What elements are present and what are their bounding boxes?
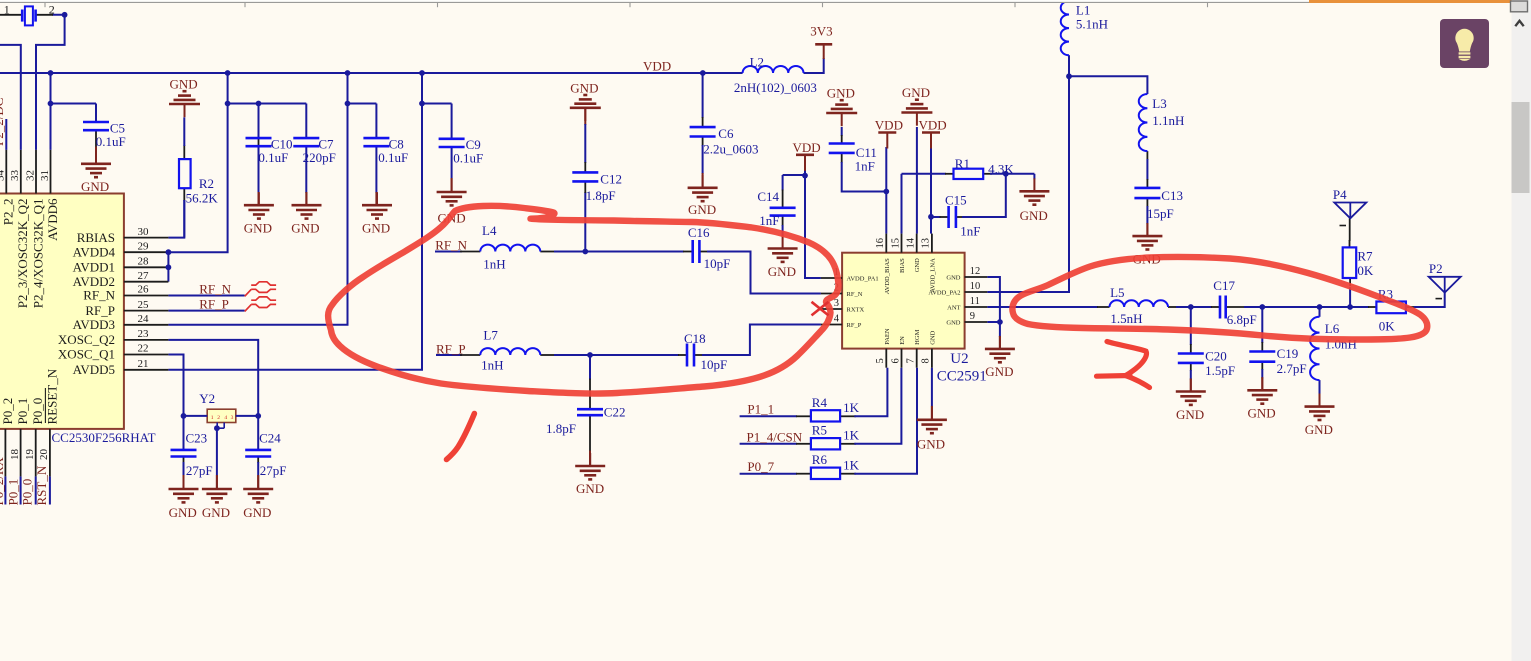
svg-text:AVDD4: AVDD4 [73,244,116,259]
svg-text:C20: C20 [1205,349,1227,364]
svg-text:R1: R1 [955,156,970,171]
svg-text:C19: C19 [1277,346,1299,361]
svg-text:29: 29 [138,240,150,252]
svg-text:1nF: 1nF [759,213,779,228]
svg-text:C18: C18 [684,331,706,346]
svg-text:RF_N: RF_N [199,282,231,297]
svg-text:AVDD_BIAS: AVDD_BIAS [884,258,891,294]
svg-text:1: 1 [4,3,10,17]
svg-text:15pF: 15pF [1147,206,1174,221]
svg-text:16: 16 [875,238,886,249]
svg-text:RF_P: RF_P [847,322,862,329]
svg-text:1.5pF: 1.5pF [1205,363,1235,378]
svg-text:P1_4/CSN: P1_4/CSN [747,429,803,444]
svg-text:0.1uF: 0.1uF [258,150,288,165]
svg-text:1nH: 1nH [483,257,505,272]
svg-text:GND: GND [362,220,390,235]
svg-text:31: 31 [39,170,51,181]
svg-text:L4: L4 [482,223,497,238]
svg-text:2.2u_0603: 2.2u_0603 [703,142,758,157]
svg-text:4: 4 [224,415,227,421]
svg-text:8: 8 [921,358,932,363]
svg-text:10pF: 10pF [704,256,731,271]
svg-text:0K: 0K [1379,319,1396,334]
svg-text:C12: C12 [600,172,622,187]
svg-text:U2: U2 [950,351,968,367]
svg-text:GND: GND [243,505,271,520]
svg-text:AVDD2: AVDD2 [73,274,115,289]
svg-text:L6: L6 [1325,321,1340,336]
svg-text:P2_3/XOSC32K_Q2: P2_3/XOSC32K_Q2 [15,199,30,309]
svg-text:56.2K: 56.2K [186,190,219,205]
svg-text:4: 4 [834,314,840,325]
svg-text:C24: C24 [259,430,281,445]
svg-text:Y2: Y2 [199,391,215,406]
svg-text:P0_1: P0_1 [6,479,21,506]
svg-text:GND: GND [291,220,319,235]
svg-text:C23: C23 [186,430,208,445]
svg-text:P2_2: P2_2 [1,199,16,226]
svg-text:VDD: VDD [643,58,671,73]
svg-text:26: 26 [138,284,150,296]
svg-text:C15: C15 [945,193,967,208]
svg-text:AVDD_PA1: AVDD_PA1 [847,275,879,282]
svg-text:RBIAS: RBIAS [77,230,115,245]
svg-text:VDD: VDD [919,118,947,133]
svg-text:L7: L7 [483,328,498,343]
svg-text:RF_N: RF_N [435,238,467,253]
svg-text:1.8pF: 1.8pF [546,421,576,436]
svg-text:C16: C16 [688,225,710,240]
svg-text:RF_P: RF_P [436,342,466,357]
svg-text:AVDD3: AVDD3 [73,317,115,332]
svg-text:RF_P: RF_P [85,303,115,318]
svg-text:20: 20 [38,449,50,461]
svg-text:RESET_N: RESET_N [44,368,59,424]
svg-text:P0_1: P0_1 [15,398,30,425]
svg-text:L3: L3 [1152,96,1166,111]
svg-text:0.1uF: 0.1uF [453,151,483,166]
svg-text:EN: EN [899,336,906,345]
svg-text:GND: GND [1020,208,1048,223]
svg-text:13: 13 [921,238,932,249]
svg-text:P0_7: P0_7 [747,459,774,474]
svg-text:2: 2 [49,3,55,17]
svg-text:R2: R2 [199,176,214,191]
svg-text:GND: GND [570,81,598,96]
svg-text:25: 25 [138,299,150,311]
svg-text:2nH(102)_0603: 2nH(102)_0603 [734,80,817,95]
svg-text:1.8pF: 1.8pF [586,188,616,203]
svg-text:P2_2/DC: P2_2/DC [0,98,6,146]
svg-text:C13: C13 [1161,188,1183,203]
svg-text:L1: L1 [1076,3,1090,18]
svg-text:C14: C14 [757,189,779,204]
svg-text:1K: 1K [843,400,860,415]
svg-text:1nF: 1nF [855,159,875,174]
svg-text:RXTX: RXTX [847,306,865,313]
svg-text:P2_4/XOSC32K_Q1: P2_4/XOSC32K_Q1 [30,199,45,309]
svg-text:GND: GND [1248,406,1276,421]
svg-text:4.3K: 4.3K [988,161,1014,176]
svg-text:23: 23 [138,328,150,340]
svg-text:L5: L5 [1110,285,1124,300]
svg-text:BIAS: BIAS [899,258,906,273]
svg-text:32: 32 [24,170,36,181]
svg-text:P0_2: P0_2 [0,398,15,425]
svg-text:VDD: VDD [875,118,903,133]
svg-text:GND: GND [169,505,197,520]
svg-text:1.5nH: 1.5nH [1110,311,1142,326]
svg-text:28: 28 [138,256,150,268]
svg-text:1K: 1K [843,458,860,473]
svg-text:GND: GND [946,274,960,281]
svg-text:1: 1 [211,415,214,421]
svg-text:21: 21 [138,358,149,370]
svg-text:AVDD1: AVDD1 [73,260,115,275]
svg-text:GND: GND [985,364,1013,379]
svg-text:R5: R5 [812,423,827,438]
svg-text:0.1uF: 0.1uF [378,150,408,165]
svg-text:14: 14 [906,237,917,248]
svg-text:ANT: ANT [947,304,960,311]
svg-text:L2: L2 [750,55,764,70]
svg-text:6: 6 [890,358,901,363]
svg-text:5: 5 [875,358,886,363]
svg-text:34: 34 [0,170,7,182]
svg-text:R4: R4 [812,395,828,410]
svg-text:6.8pF: 6.8pF [1227,312,1257,327]
svg-text:P4: P4 [1333,187,1347,202]
svg-text:AVDD5: AVDD5 [73,362,115,377]
svg-text:1nH: 1nH [481,358,503,373]
svg-text:CC2530F256RHAT: CC2530F256RHAT [52,430,156,445]
svg-text:27: 27 [138,270,150,282]
svg-text:P0_0: P0_0 [20,479,35,506]
svg-text:P1_1: P1_1 [747,402,774,417]
svg-text:0.1uF: 0.1uF [96,134,126,149]
svg-text:1nF: 1nF [960,223,980,238]
svg-text:XOSC_Q1: XOSC_Q1 [58,347,115,362]
svg-text:GND: GND [170,77,198,92]
svg-text:CC2591: CC2591 [937,369,987,385]
svg-text:GND: GND [81,179,109,194]
svg-text:GND: GND [902,85,930,100]
svg-text:1.1nH: 1.1nH [1152,113,1184,128]
svg-text:2: 2 [217,415,220,421]
svg-text:12: 12 [970,266,981,277]
svg-text:10pF: 10pF [701,357,728,372]
svg-text:30: 30 [138,226,150,238]
svg-text:XOSC_Q2: XOSC_Q2 [58,332,115,347]
svg-text:RF_N: RF_N [847,291,863,298]
svg-text:P0_0: P0_0 [30,398,45,425]
svg-text:RF_N: RF_N [83,288,115,303]
svg-text:GND: GND [244,220,272,235]
svg-text:3: 3 [834,298,839,309]
svg-text:33: 33 [9,170,21,182]
svg-text:P2: P2 [1429,261,1443,276]
svg-text:0K: 0K [1357,263,1374,278]
svg-text:24: 24 [138,313,150,325]
svg-text:RF_P: RF_P [199,297,229,312]
svg-text:GND: GND [946,319,960,326]
svg-text:GND: GND [1176,407,1204,422]
svg-text:22: 22 [138,343,149,355]
svg-text:GND: GND [917,437,945,452]
svg-text:GND: GND [202,505,230,520]
svg-text:C22: C22 [604,405,626,420]
svg-text:18: 18 [9,449,21,461]
svg-text:RST_N: RST_N [34,465,49,505]
svg-text:R6: R6 [812,452,828,467]
svg-text:10: 10 [970,281,981,292]
svg-text:AVDD_LNA: AVDD_LNA [929,258,936,293]
svg-text:1K: 1K [843,428,860,443]
svg-text:HGM: HGM [914,329,921,344]
svg-text:GND: GND [576,481,604,496]
svg-text:VDD: VDD [793,140,821,155]
svg-text:GND: GND [827,86,855,101]
svg-text:R7: R7 [1357,249,1373,264]
svg-text:27pF: 27pF [186,463,213,478]
svg-text:15: 15 [890,238,901,249]
svg-text:GND: GND [1305,422,1333,437]
svg-text:C6: C6 [718,126,734,141]
svg-text:9: 9 [970,311,975,322]
svg-text:7: 7 [906,358,917,363]
svg-text:PAEN: PAEN [884,328,891,345]
svg-text:5.1nH: 5.1nH [1076,17,1108,32]
svg-text:C17: C17 [1213,278,1235,293]
svg-text:19: 19 [24,449,36,461]
svg-text:220pF: 220pF [303,150,336,165]
svg-text:2.7pF: 2.7pF [1277,361,1307,376]
svg-text:GND: GND [914,258,921,272]
svg-text:GND: GND [929,330,936,344]
svg-text:11: 11 [970,296,980,307]
svg-text:GND: GND [688,202,716,217]
svg-text:GND: GND [768,264,796,279]
svg-text:27pF: 27pF [260,463,287,478]
svg-text:AVDD6: AVDD6 [45,198,60,241]
svg-text:3V3: 3V3 [810,24,832,39]
svg-text:3: 3 [231,415,234,421]
